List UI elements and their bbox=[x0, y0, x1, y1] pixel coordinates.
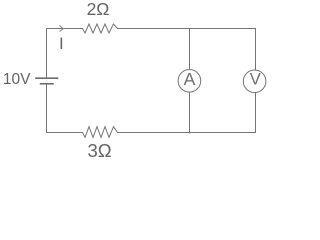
wire left vertical upper bbox=[46, 29, 48, 79]
wire top-right horizontal bbox=[118, 28, 256, 30]
svg-text:I: I bbox=[59, 34, 64, 53]
svg-text:10V: 10V bbox=[3, 71, 31, 88]
resistor R2 3Ω zigzag bbox=[83, 127, 118, 138]
ammeter A circle bbox=[178, 70, 201, 93]
wire bottom-right horizontal bbox=[118, 132, 256, 134]
wire right vertical lower bbox=[255, 93, 257, 133]
wire left vertical lower bbox=[46, 84, 48, 133]
svg-text:3Ω: 3Ω bbox=[87, 140, 111, 160]
battery 10V plates bbox=[35, 78, 58, 84]
ammeter branch wire upper bbox=[189, 29, 191, 70]
resistor R1 2Ω zigzag bbox=[83, 24, 118, 33]
wire bottom-left horizontal bbox=[47, 132, 83, 134]
voltmeter V circle bbox=[243, 70, 266, 93]
wire ammeter branch lower bbox=[189, 92, 191, 133]
wire right vertical upper bbox=[255, 29, 257, 71]
svg-text:V: V bbox=[250, 70, 261, 88]
svg-text:2Ω: 2Ω bbox=[87, 0, 110, 19]
svg-text:A: A bbox=[184, 69, 196, 89]
wire top-left horizontal bbox=[47, 28, 83, 30]
current arrow on top wire bbox=[60, 26, 64, 31]
